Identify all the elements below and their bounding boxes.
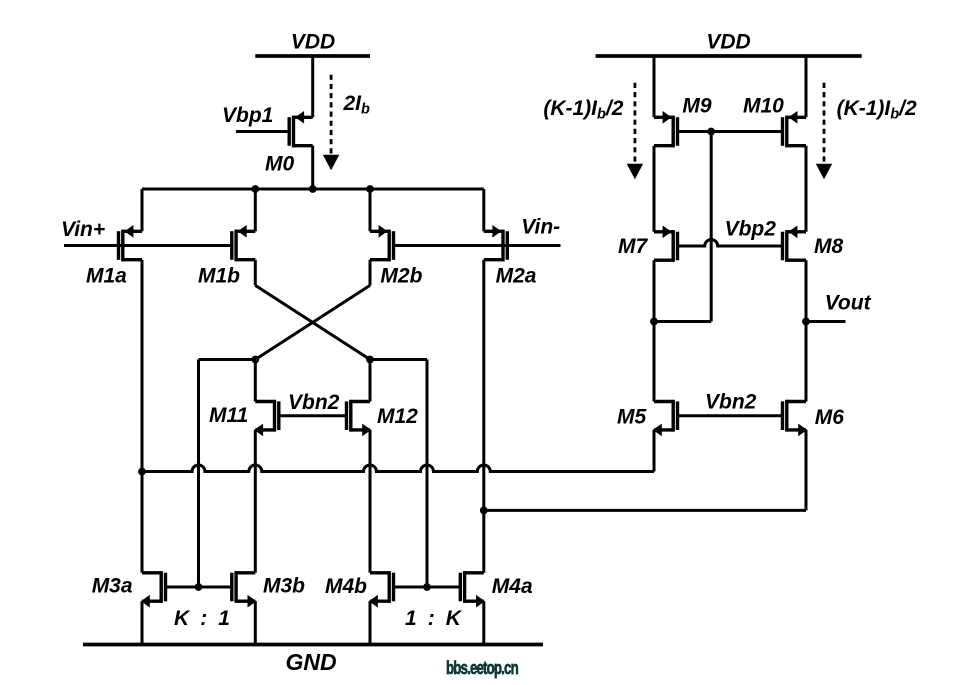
wire M10 source to VDD	[805, 56, 808, 117]
pmos M0	[289, 111, 313, 147]
wire M8 drain to M6 drain	[805, 260, 808, 401]
wire M10 drain to M8 source	[805, 146, 808, 232]
svg-text:M7: M7	[618, 235, 648, 258]
junction tail-M0	[309, 185, 317, 193]
wire M2a drain down	[482, 260, 485, 573]
pmos M2b	[370, 225, 394, 261]
wire M2b source up	[369, 189, 372, 231]
wire M1a source up	[141, 189, 144, 231]
svg-text:M3a: M3a	[92, 575, 133, 598]
wire Vout stub	[806, 320, 846, 323]
wire routing net lower-left	[142, 465, 654, 471]
wire left node to gate feed	[199, 358, 256, 361]
wire M4b-M4a gate	[394, 586, 461, 589]
wire M11 drain up	[254, 360, 257, 402]
nmos M4b	[369, 571, 394, 607]
GND rail	[83, 643, 543, 647]
svg-text:Vbn2: Vbn2	[705, 391, 757, 414]
svg-text:M5: M5	[617, 406, 646, 429]
svg-text:M2a: M2a	[496, 265, 537, 288]
junction routing-M2a drain	[480, 507, 488, 515]
svg-text:Vbp2: Vbp2	[725, 218, 777, 241]
wire gate feed left down	[197, 360, 200, 588]
wire routing up to M5 source	[653, 430, 656, 472]
wire M9-M10 gate	[678, 130, 783, 133]
wire M7 drain to M5 drain	[653, 260, 656, 401]
wire M3b source to GND	[254, 601, 257, 644]
wire M4a source to GND	[482, 601, 485, 644]
wire Vin+ gate	[64, 244, 232, 247]
junction tail-M1b	[251, 185, 259, 193]
nmos M3a	[141, 571, 166, 607]
wire M11-M12 gate	[279, 414, 347, 417]
svg-text:M4b: M4b	[325, 575, 367, 598]
wire M2a source up	[482, 189, 485, 231]
current arrow 2Ib	[323, 75, 339, 171]
current arrow (K-1)Ib/2 right	[816, 83, 832, 180]
svg-text:M1b: M1b	[198, 265, 240, 288]
svg-text:K : 1: K : 1	[174, 607, 233, 630]
svg-text:M2b: M2b	[380, 265, 422, 288]
pmos M1a	[119, 225, 143, 261]
wire M12 drain up	[369, 360, 372, 402]
junction M3 gate feed	[195, 583, 203, 591]
svg-text:Vout: Vout	[825, 292, 872, 315]
svg-text:M9: M9	[682, 94, 711, 117]
pmos M10	[783, 111, 807, 147]
svg-text:M6: M6	[815, 406, 844, 429]
pmos M2a	[484, 225, 508, 261]
nmos M3b	[232, 571, 257, 607]
svg-text:Vin+: Vin+	[61, 218, 105, 241]
wire right node to gate feed	[370, 358, 427, 361]
wire M4b source to GND	[369, 601, 372, 644]
nmos M6	[783, 400, 808, 436]
svg-text:M3b: M3b	[263, 575, 305, 598]
VDD rail (left)	[255, 54, 370, 58]
nmos M4a	[460, 571, 485, 607]
wire M1b source up	[254, 189, 257, 231]
svg-text:M0: M0	[265, 153, 294, 176]
svg-text:M4a: M4a	[492, 575, 533, 598]
wire gate feed right down	[426, 360, 429, 588]
wire Vbp1 to M0 gate	[236, 130, 289, 133]
wire diagonal M2b to left node	[255, 285, 370, 359]
junction Vout node	[802, 318, 810, 326]
wire M3a source to GND	[141, 601, 144, 644]
wire Vin- gate	[394, 244, 561, 247]
VDD rail (right)	[596, 54, 862, 58]
nmos M11	[254, 400, 279, 436]
wire M1b drain down	[254, 260, 257, 286]
junction routing-M1a drain	[138, 468, 146, 476]
svg-text:(K-1)Ib/2: (K-1)Ib/2	[543, 97, 623, 123]
node right cross	[366, 356, 374, 364]
pmos M1b	[232, 225, 256, 261]
wire M3a-M3b gate	[165, 586, 231, 589]
svg-text:Vin-: Vin-	[521, 216, 560, 239]
svg-text:M11: M11	[209, 404, 248, 427]
wire M5-M6 gate	[678, 414, 783, 417]
wire M7-M8 gate	[678, 240, 783, 246]
svg-text:M12: M12	[377, 405, 418, 428]
wire M2b drain down	[369, 260, 372, 286]
pmos M7	[654, 226, 678, 262]
junction tail-M2b	[366, 185, 374, 193]
wire mid link	[654, 320, 711, 323]
pmos M9	[654, 111, 678, 147]
svg-text:GND: GND	[285, 649, 336, 675]
wire routing up to M6 source	[805, 430, 808, 511]
wire M9 source to VDD	[653, 56, 656, 117]
svg-text:Vbp1: Vbp1	[222, 104, 273, 127]
svg-text:1 : K: 1 : K	[405, 607, 464, 630]
wire M12 source down	[369, 430, 372, 573]
junction M9-M10 gate	[707, 128, 715, 136]
nmos M5	[653, 400, 678, 436]
tail rail	[142, 188, 484, 191]
wire M0 drain to tail	[311, 146, 314, 189]
svg-text:Vbn2: Vbn2	[288, 391, 340, 414]
svg-text:M8: M8	[814, 235, 843, 258]
wire M0 source to VDD	[311, 56, 314, 117]
svg-text:VDD: VDD	[706, 31, 750, 54]
svg-text:VDD: VDD	[291, 31, 335, 54]
svg-text:bbs.eetop.cn: bbs.eetop.cn	[446, 658, 519, 679]
wire routing net lower-right	[484, 509, 806, 512]
nmos M12	[347, 400, 372, 436]
wire M11 source down	[254, 430, 257, 573]
junction M7 drain node	[650, 318, 658, 326]
wire M1a drain down	[141, 260, 144, 573]
current arrow (K-1)Ib/2 left	[627, 83, 643, 180]
node left cross	[251, 356, 259, 364]
svg-text:M1a: M1a	[86, 265, 127, 288]
pmos M8	[783, 226, 807, 262]
junction M4 gate feed	[423, 583, 431, 591]
svg-text:(K-1)Ib/2: (K-1)Ib/2	[837, 97, 917, 123]
wire diagonal M1b to right node	[255, 285, 370, 359]
wire gate feed down mid	[710, 132, 713, 322]
wire M9 drain to M7 source	[653, 146, 656, 232]
svg-text:M10: M10	[743, 94, 784, 117]
